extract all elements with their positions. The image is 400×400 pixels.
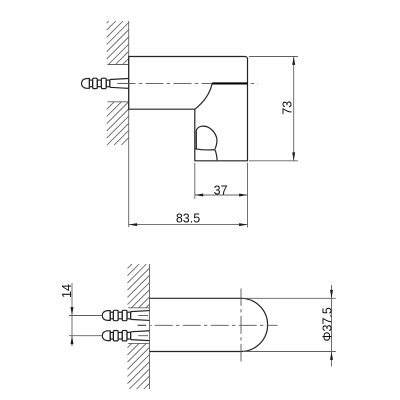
svg-text:Φ37.5: Φ37.5	[320, 307, 334, 341]
body outline (side view)	[129, 57, 248, 161]
dim 37.5 extension top	[243, 297, 336, 299]
dim 83.5 line	[129, 224, 248, 226]
body outline (plan view, capsule)	[150, 298, 268, 351]
anchor hole edge bottom (plan view)	[128, 342, 149, 344]
bold step edge	[212, 82, 247, 84]
wall face line / extension line	[128, 21, 130, 227]
dim 14 arrow lower (outside)	[71, 336, 74, 344]
dim 73 arrow bottom	[292, 152, 295, 160]
dim 73 extension top	[249, 56, 298, 58]
dim 14 extension lower	[69, 335, 102, 337]
dim 37 arrow left	[195, 194, 203, 197]
anchor screw upper (plan view)	[102, 310, 149, 320]
horizontal centerline (plan view)	[155, 324, 278, 326]
dim 37.5 arrow top (outside)	[330, 290, 333, 298]
anchor screw (side view)	[82, 78, 129, 88]
dim 14 extension upper	[69, 315, 102, 317]
dim 73 arrow top	[292, 57, 295, 65]
roller dome	[196, 126, 217, 149]
vertical centerline (plan view)	[240, 289, 242, 362]
anchor hole edge top	[107, 64, 128, 66]
roller belt line	[195, 149, 215, 150]
anchor screw lower (plan view)	[102, 331, 149, 341]
roller lower edge	[215, 150, 217, 161]
wall hatching (plan view)	[128, 264, 133, 269]
dim 37 arrow right	[239, 194, 247, 197]
horizontal centerline dash in wall	[138, 324, 147, 326]
dim 83.5 arrow right	[239, 223, 247, 226]
wall hatching (side view)	[107, 21, 109, 23]
centerline (side view)	[118, 82, 259, 84]
dim 73 line	[293, 57, 295, 161]
svg-text:14: 14	[60, 284, 74, 298]
fillet curve	[195, 83, 212, 109]
dim 37 line	[195, 194, 248, 196]
anchor hole edge bottom	[107, 101, 128, 103]
dim 37.5 line	[331, 285, 333, 367]
wall face line (plan view)	[149, 264, 151, 389]
dim 37 extension left	[194, 163, 196, 199]
svg-text:83.5: 83.5	[176, 211, 200, 225]
dim 14 line	[71, 283, 73, 346]
dim 83.5 arrow left	[129, 223, 137, 226]
dim 37.5 arrow bottom (outside)	[330, 352, 333, 360]
svg-text:37: 37	[214, 183, 228, 197]
anchor hole edge top (plan view)	[128, 307, 149, 309]
dim 14 arrow upper (outside)	[71, 307, 74, 315]
dim 37.5 extension bottom	[243, 351, 336, 353]
dim 37 / 83.5 shared extension right	[247, 163, 249, 228]
svg-text:73: 73	[281, 101, 295, 115]
dim 73 extension bottom	[249, 160, 298, 162]
